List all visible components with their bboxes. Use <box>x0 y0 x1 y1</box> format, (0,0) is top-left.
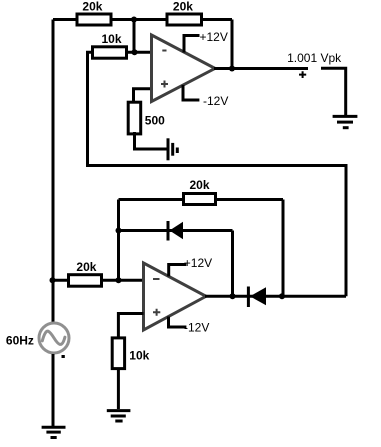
svg-text:60Hz: 60Hz <box>6 334 34 348</box>
U1 -12V supply tap <box>183 85 228 108</box>
svg-text:-12V: -12V <box>184 321 209 335</box>
wire from top-row junction down to inverting node of U1 <box>133 20 136 53</box>
resistor R4 20k feedback <box>184 178 216 205</box>
wire feedback left drop to U2 inverting node <box>117 200 120 281</box>
wire diode D1 row <box>119 229 233 232</box>
node U2 inverting input junction <box>116 277 122 283</box>
svg-text:10k: 10k <box>102 32 122 46</box>
wire D1 row right drop to U2 output node <box>231 231 234 297</box>
op-amp U1 <box>152 35 216 102</box>
svg-text:1.001 Vpk: 1.001 Vpk <box>287 51 342 65</box>
wire U2 plus input to R6 <box>118 314 143 338</box>
node D2 to feedback junction <box>279 293 285 299</box>
resistor R6 10k <box>112 338 149 369</box>
wire inverting node row through R3 into U1 minus input <box>86 51 151 54</box>
svg-text:20k: 20k <box>173 0 193 14</box>
resistor R5 20k input <box>69 260 102 286</box>
wire bottom feedback row through R4 <box>119 198 284 201</box>
wire R6 bottom to ground <box>117 370 120 410</box>
svg-text:+12V: +12V <box>184 256 212 270</box>
wire U1 plus input to resistor 500 <box>134 89 152 103</box>
wire feedback drop from R2 right to op-amp U1 output node <box>231 20 234 69</box>
node D1 anode junction <box>116 228 122 234</box>
wire source bottom to ground <box>52 354 55 426</box>
wire left column from top row down to source V1 <box>52 20 55 323</box>
ground below R6 <box>107 411 131 421</box>
svg-text:20k: 20k <box>76 260 96 274</box>
svg-text:+12V: +12V <box>200 30 228 44</box>
svg-text:500: 500 <box>145 114 165 128</box>
U2 +12V supply tap <box>169 256 212 276</box>
resistor R3 10k <box>93 32 127 58</box>
resistor R2 20k <box>167 0 202 25</box>
node junction top row to R2 <box>131 17 137 23</box>
ground below source V1 <box>42 427 66 437</box>
ground (rotated) at 500 resistor <box>168 138 177 160</box>
svg-text:-12V: -12V <box>203 94 228 108</box>
resistor R1 20k <box>77 0 111 25</box>
wire right column of feedback run down to U2 output row <box>345 164 348 296</box>
node U2 output junction to D1 branch <box>230 293 236 299</box>
svg-text:20k: 20k <box>190 178 210 192</box>
wire U1 output row <box>214 67 308 70</box>
node input junction at source column <box>50 277 56 283</box>
diode D1 <box>168 221 183 241</box>
wire long horizontal feedback run <box>86 164 346 167</box>
resistor R7 500 <box>128 102 165 134</box>
node inverting input U1 <box>132 49 138 55</box>
wire top row from input node through R1 and R2 to feedback corner <box>53 18 232 21</box>
svg-text:20k: 20k <box>82 0 102 14</box>
op-amp U2 <box>144 263 207 330</box>
source V1 60Hz <box>6 323 69 357</box>
wire resistor 500 bottom to ground tap <box>135 132 167 149</box>
diode D2 <box>248 287 266 308</box>
node U1 output junction <box>229 66 235 72</box>
wire feedback right drop to U2 output row <box>282 200 285 297</box>
wire probe reference elbow to ground <box>321 68 346 115</box>
U1 +12V supply tap <box>184 30 228 53</box>
wire input row through R5 to U2 minus input <box>53 279 144 282</box>
U2 -12V supply tap <box>169 317 210 335</box>
ground at output probe <box>333 116 358 127</box>
probe plus polarity mark <box>299 71 306 78</box>
wire from R3 left lead down to long feedback run <box>86 52 89 165</box>
label output measurement 1.001 Vpk <box>287 51 342 65</box>
svg-text:10k: 10k <box>129 349 149 363</box>
wire U2 output row through D2 <box>205 295 346 298</box>
